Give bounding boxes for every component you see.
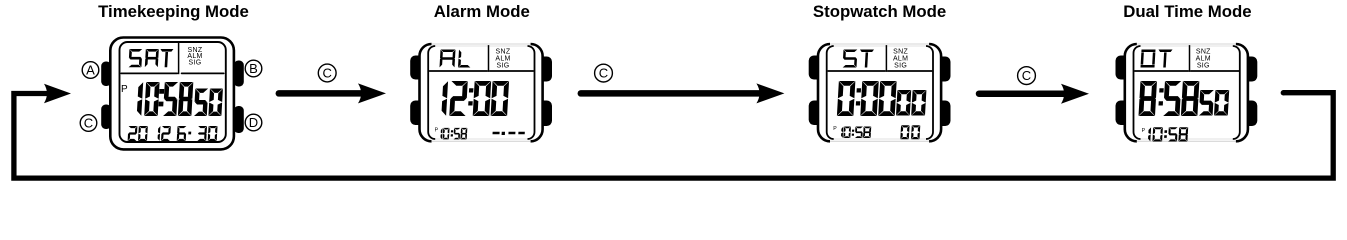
svg-text:B: B	[249, 61, 258, 76]
svg-text:SIG: SIG	[1197, 62, 1210, 69]
svg-text:SIG: SIG	[894, 62, 907, 69]
svg-text:P: P	[1142, 128, 1146, 134]
svg-text:C: C	[599, 66, 608, 81]
svg-text:Timekeeping Mode: Timekeeping Mode	[98, 2, 249, 21]
svg-text:Stopwatch Mode: Stopwatch Mode	[813, 2, 946, 21]
svg-text:SIG: SIG	[189, 59, 202, 66]
svg-text:SNZ: SNZ	[1196, 48, 1211, 55]
svg-text:Dual Time Mode: Dual Time Mode	[1123, 2, 1251, 21]
svg-text:SNZ: SNZ	[496, 48, 511, 55]
svg-text:C: C	[323, 65, 332, 80]
svg-text:SNZ: SNZ	[893, 48, 908, 55]
svg-text:D: D	[249, 115, 258, 130]
svg-text:C: C	[84, 115, 93, 130]
svg-text:P: P	[833, 126, 837, 132]
svg-text:Alarm Mode: Alarm Mode	[434, 2, 530, 21]
svg-text:P: P	[435, 127, 439, 133]
svg-text:P: P	[121, 84, 128, 95]
svg-text:C: C	[1022, 68, 1031, 83]
svg-text:A: A	[86, 62, 95, 77]
svg-text:SIG: SIG	[497, 62, 510, 69]
